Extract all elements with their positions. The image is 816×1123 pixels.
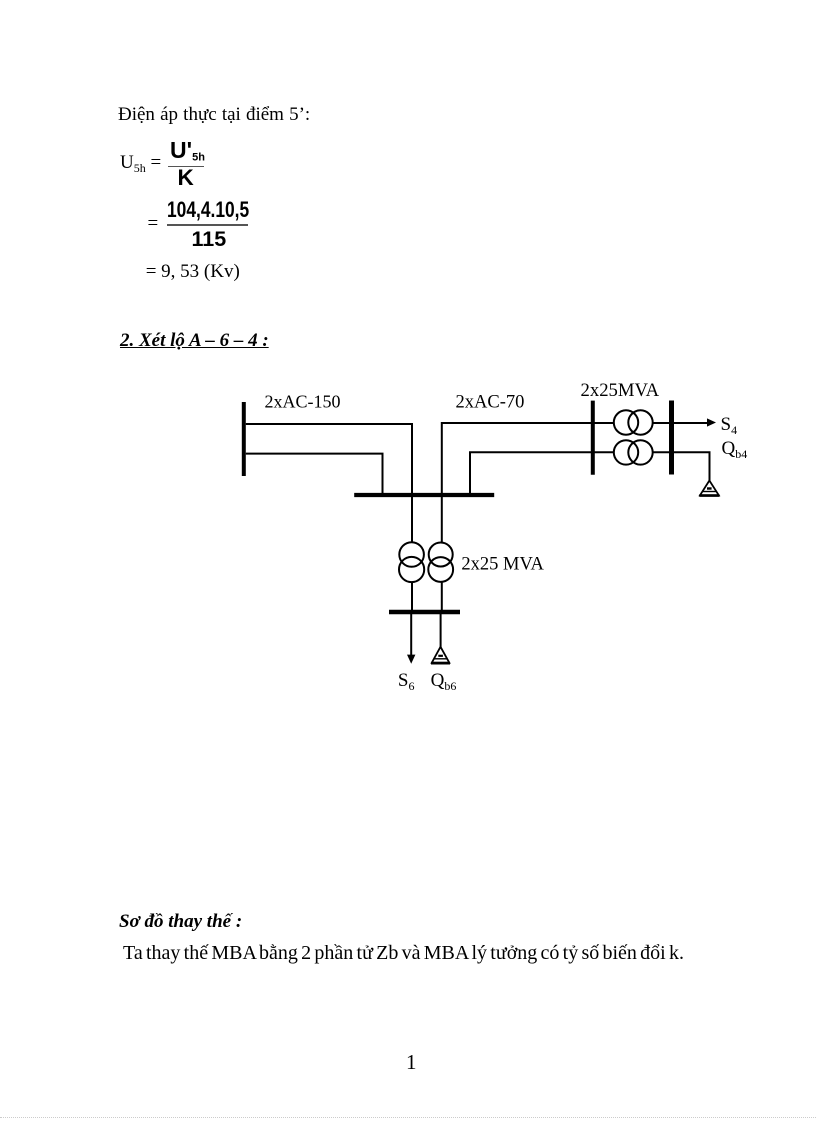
svg-text:S6: S6	[398, 670, 415, 693]
capacitor Qb4 triangle	[699, 481, 719, 496]
circuit diagram	[230, 370, 770, 700]
svg-text:2x25MVA: 2x25MVA	[581, 380, 660, 401]
transformer T4a circles	[614, 410, 638, 434]
wire 6-4 bottom	[470, 452, 710, 495]
bus node 6 (central)	[354, 493, 494, 497]
bus A (left)	[242, 402, 246, 476]
arrow S6 line	[410, 614, 412, 655]
transformer T6a circles	[399, 542, 424, 567]
svg-text:S4: S4	[721, 414, 738, 437]
capacitor Qb6 triangle	[431, 647, 450, 663]
wire 6-4 top	[442, 423, 707, 495]
line: Dien ap thuc tai diem 5'	[118, 105, 310, 124]
wire A-6 bottom	[246, 454, 383, 495]
formula U5h = U'5h / K	[120, 153, 161, 174]
page number	[406, 1052, 417, 1073]
bus 6 low	[389, 610, 460, 614]
arrow S4	[707, 418, 716, 426]
wire A-6 top	[246, 424, 412, 495]
transformer T4b circles	[614, 440, 638, 464]
svg-text:2xAC-70: 2xAC-70	[456, 393, 525, 413]
bus 4 right	[669, 401, 674, 475]
bus 4 left	[591, 401, 595, 475]
heading 2. Xet lo A - 6 - 4	[120, 331, 269, 350]
wire Qb6 drop	[440, 614, 442, 647]
transformer T6b circles	[429, 543, 453, 567]
svg-text:2xAC-150: 2xAC-150	[265, 392, 341, 412]
line: = 9, 53 (Kv)	[146, 262, 240, 281]
transformer masks (white fills)	[399, 410, 653, 582]
svg-text:Qb6: Qb6	[431, 670, 457, 693]
formula = 1044.105 / 115	[148, 214, 159, 233]
arrow S6 head	[407, 655, 415, 664]
bottom dotted separator	[0, 1117, 816, 1118]
heading So do thay the	[119, 912, 242, 931]
wire transformer T6 right drop	[441, 495, 443, 610]
wire transformer T6 left drop	[411, 495, 413, 610]
body line	[123, 943, 684, 963]
svg-text:Qb4: Qb4	[722, 438, 748, 461]
svg-text:2x25 MVA: 2x25 MVA	[461, 555, 544, 575]
